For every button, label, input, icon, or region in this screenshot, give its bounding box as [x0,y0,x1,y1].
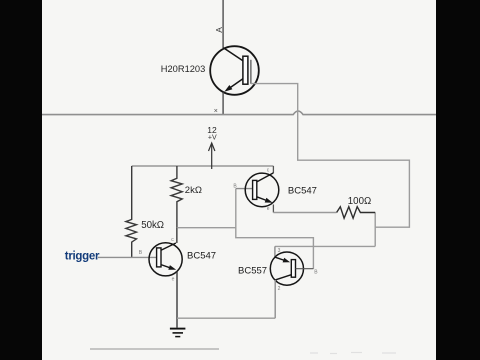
faint bottom-right artifacts [310,353,396,354]
svg-text:trigger: trigger [65,251,100,263]
resistor R1 2k: leads and zigzag, continuing to Q2 collector [171,166,182,243]
svg-text:100Ω: 100Ω [348,196,371,207]
wire: stray horizontal line at bottom [90,348,219,350]
svg-text:H20R1203: H20R1203 [161,64,205,74]
wire: Q2 emitter down to ground [176,271,178,327]
wire: trigger line to Q2 base [98,256,157,258]
wire: +V supply rail [132,165,274,167]
left black border bar [0,0,42,360]
wire: 100 ohm right terminal down through junction [374,213,376,247]
transistor Q2 BC547 (lower left) [149,243,182,276]
svg-text:50kΩ: 50kΩ [141,220,164,231]
svg-text:e: e [267,206,270,212]
transistor Q3 BC557 (PNP) [270,252,313,285]
wire: IGBT emitter down to main line [222,93,224,115]
svg-text:2kΩ: 2kΩ [185,185,202,196]
wire: ground branch to BC557 collector [177,317,275,319]
svg-text:BC547: BC547 [288,186,317,197]
right black border bar [436,0,480,360]
svg-text:BC547: BC547 [187,250,216,261]
wire: gate loop from IGBT gate right, down, around to 100 ohm node [251,84,410,228]
wire: Q2 collector node horizontal to Q1 base vertical [177,227,236,229]
wire: Q2 collector riser (to 2k node) [176,228,178,243]
ground [170,329,186,337]
wire: Q1 base vertical and cross link to BC557 base [236,189,314,269]
svg-text:3: 3 [278,248,281,254]
wire: BC557 emitter horizontal to gate node [275,245,375,247]
resistor R2 50k: top lead from rail, zigzag, bottom lead to trigger line [126,166,137,257]
svg-text:A: A [214,27,224,33]
wire: BC557 collector drop [274,280,276,318]
svg-text:12: 12 [207,125,217,135]
power +V arrow [209,143,215,169]
svg-text:2: 2 [278,286,281,292]
svg-text:+V: +V [208,135,217,142]
resistor R3 100 ohm zigzag [337,207,376,219]
transistor U1 H20R1203 IGBT symbol [210,46,259,95]
wire: Q1 base horizontal [236,188,253,190]
transistor Q1 BC547 (top) [245,166,279,213]
wire: Q1 emitter to 100 ohm left lead [273,212,336,214]
svg-text:BC557: BC557 [238,266,267,277]
wire: collector feed from top edge into IGBT [222,0,224,48]
svg-text:e: e [172,277,175,283]
wire: long horizontal emitter rail with hop over gate wire [42,111,436,115]
wire: BC557 emitter riser [274,246,276,257]
